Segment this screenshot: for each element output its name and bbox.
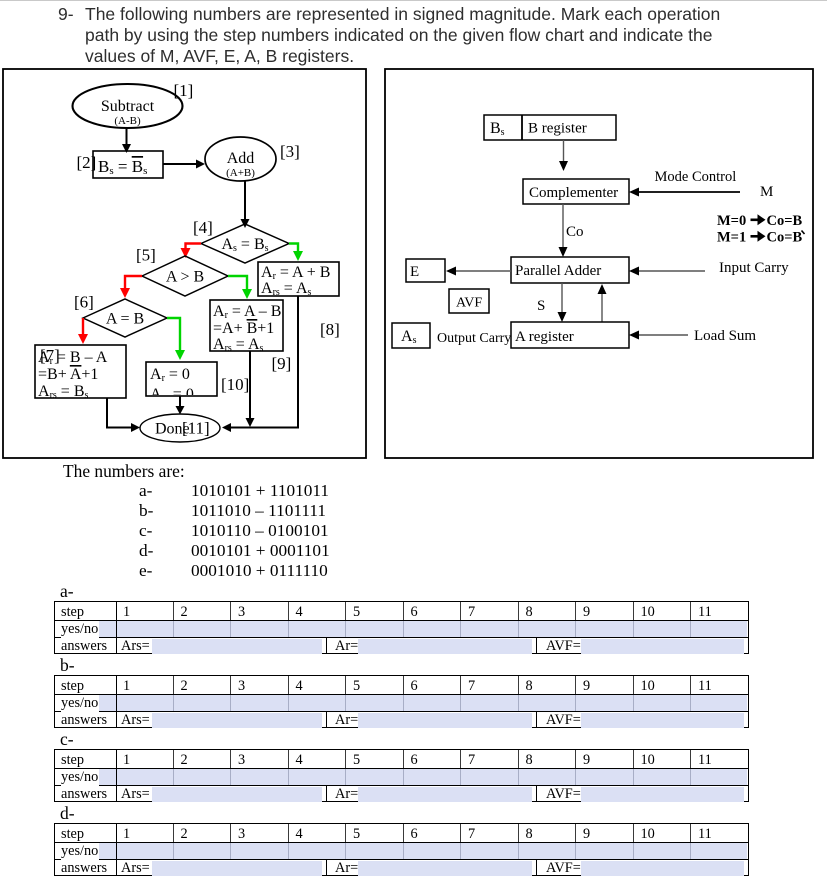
box: Complementer — [523, 179, 629, 204]
process box [7]: Ar = B - A — [35, 345, 126, 401]
svg-text:Mode Control: Mode Control — [655, 169, 737, 185]
svg-text:Add: Add — [227, 150, 255, 167]
label: Mode Control — [655, 169, 737, 185]
svg-text:Ar = A – B: Ar = A – B — [213, 303, 281, 321]
svg-text:Ars = 0: Ars = 0 — [150, 386, 194, 404]
svg-text:Subtract: Subtract — [101, 98, 155, 115]
svg-text:[10]: [10] — [221, 375, 249, 394]
svg-text:=A+ B+1: =A+ B+1 — [213, 320, 274, 337]
svg-text:[1]: [1] — [174, 81, 194, 100]
svg-text:M=1: M=1 — [717, 230, 746, 246]
svg-text:Output Carry: Output Carry — [437, 331, 511, 346]
block diagram outer frame — [385, 69, 813, 458]
svg-text:Ar = 0: Ar = 0 — [150, 366, 190, 384]
svg-text:Parallel Adder: Parallel Adder — [515, 263, 601, 279]
svg-text:[4]: [4] — [193, 218, 213, 237]
svg-text:As = Bs: As = Bs — [221, 236, 268, 254]
wire: box [10] to Done — [176, 396, 185, 415]
label: Input Carry — [719, 260, 789, 276]
svg-text:E: E — [410, 264, 419, 280]
svg-text:Co=B: Co=B — [767, 213, 803, 229]
svg-text:(A+B): (A+B) — [226, 167, 255, 179]
svg-text:Complementer: Complementer — [529, 185, 618, 201]
svg-text:(A-B): (A-B) — [114, 115, 141, 127]
svg-text:Co: Co — [566, 224, 584, 240]
step label [6] — [74, 293, 94, 312]
green wire: A=B yes-branch to box [10] — [167, 318, 185, 360]
green wire: A>B yes-branch to box [9] — [228, 276, 252, 299]
step label [8] — [320, 320, 340, 339]
step label [2] — [77, 153, 97, 172]
svg-text:A = B: A = B — [106, 311, 144, 328]
svg-text:M=0: M=0 — [717, 213, 746, 229]
svg-text:[8]: [8] — [320, 320, 340, 339]
decision diamond: A > B — [142, 256, 228, 296]
step label [9] — [272, 354, 292, 373]
step label [10] — [221, 375, 249, 394]
svg-text:Ars = Bs: Ars = Bs — [38, 383, 89, 401]
svg-text:A register: A register — [515, 329, 574, 345]
step label [4] — [193, 218, 213, 237]
red wire: A>B no-branch to A=B — [120, 276, 142, 298]
table group b- — [60, 655, 75, 676]
red wire: As=Bs no-branch to A>B — [181, 244, 202, 259]
wire: A register up to Parallel Adder — [598, 284, 607, 322]
svg-text:Bs: Bs — [490, 120, 505, 138]
step label [7] overlapping box text — [40, 346, 60, 365]
box: Parallel Adder — [511, 257, 629, 283]
svg-text:Ars = As: Ars = As — [261, 280, 312, 298]
wire: box [7] to Done — [107, 398, 140, 432]
green wire: As=Bs yes-branch to box [8] — [289, 244, 303, 262]
wire: Mode Control M into Complementer — [629, 188, 740, 197]
svg-text:[9]: [9] — [272, 354, 292, 373]
wire: Subtract to box Bs — [122, 128, 131, 153]
label: M — [760, 184, 773, 200]
step label [3] — [280, 142, 300, 161]
table group d- — [60, 803, 75, 824]
wire: Add to diamond As=Bs — [241, 181, 250, 228]
red wire: A=B no-branch to box [7] — [78, 318, 88, 344]
box: E — [406, 259, 445, 282]
top hairline — [0, 0, 827, 1]
svg-text:AVF: AVF — [456, 296, 482, 311]
wire: box Bs to Add — [163, 160, 205, 169]
svg-text:As: As — [401, 328, 417, 346]
box: AVF — [449, 289, 489, 313]
svg-text:[3]: [3] — [280, 142, 300, 161]
svg-text:[6]: [6] — [74, 293, 94, 312]
label: M=0 -> Co=B — [717, 213, 802, 229]
process box: Bs = Bs' — [93, 151, 163, 178]
terminal ellipse: Done [11] — [140, 414, 220, 442]
label: Output Carry — [437, 331, 511, 346]
terminal ellipse: Add (A+B) — [205, 137, 276, 181]
svg-text:[5]: [5] — [136, 246, 156, 265]
box: As — [392, 323, 430, 348]
terminal ellipse: Subtract (A-B) — [73, 84, 183, 128]
table group a- — [60, 581, 74, 602]
svg-text:M: M — [760, 184, 773, 200]
wire: Parallel Adder to E — [446, 267, 511, 276]
process box [8]: Ar = A + B — [258, 262, 339, 298]
label: Load Sum — [694, 328, 756, 344]
register box: Bs | B register — [484, 115, 616, 140]
header question text — [57, 3, 59, 5]
svg-text:Input Carry: Input Carry — [719, 260, 789, 276]
wire: box [9] down to Done junction — [246, 351, 255, 427]
label: Co — [566, 224, 584, 240]
step label [5] — [136, 246, 156, 265]
table group c- — [60, 729, 74, 750]
svg-text:[7]: [7] — [40, 346, 60, 365]
wire: Parallel Adder S down to A register — [558, 283, 567, 322]
flowchart outer frame — [3, 69, 366, 458]
process box [10]: Ar = 0 — [146, 362, 217, 404]
wire: B register to Complementer — [559, 140, 568, 171]
wire: Complementer to Parallel Adder — [559, 204, 568, 257]
svg-text:=B+ A+1: =B+ A+1 — [38, 366, 98, 383]
label: M=1 -> Co=B' — [717, 230, 805, 246]
decision diamond: As = Bs — [201, 224, 289, 263]
box: A register — [511, 322, 629, 348]
svg-text:Bs = Bs: Bs = Bs — [98, 157, 147, 177]
wire: Input Carry into Parallel Adder — [629, 267, 705, 276]
step label [1] — [174, 81, 194, 100]
svg-text:Ars = As: Ars = As — [213, 336, 264, 354]
process box [9]: Ar = A - B — [210, 300, 283, 354]
svg-text:B register: B register — [528, 121, 587, 137]
svg-text:[11]: [11] — [182, 419, 210, 438]
svg-text:Co=B: Co=B — [767, 230, 803, 246]
wire: Load Sum into A register — [629, 331, 688, 340]
wire: box [8] down and left into Done — [222, 296, 298, 432]
decision diamond: A = B — [83, 299, 167, 337]
label: S — [537, 298, 545, 314]
svg-text:Load Sum: Load Sum — [694, 328, 756, 344]
svg-text:S: S — [537, 298, 545, 314]
svg-text:A > B: A > B — [166, 269, 204, 286]
